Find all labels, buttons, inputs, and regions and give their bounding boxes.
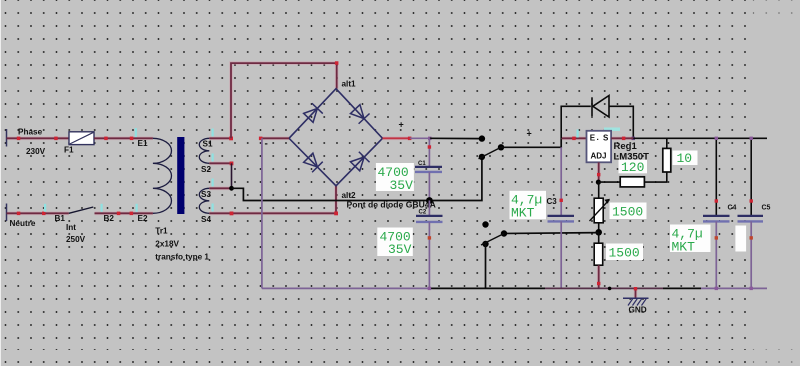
diode D4 bottom-right bbox=[350, 152, 370, 172]
transformer Tr1 primary winding bbox=[153, 138, 172, 213]
value label 120 bbox=[619, 160, 648, 175]
capacitor C4 top lead bbox=[715, 138, 717, 216]
svg-text:C3: C3 bbox=[547, 197, 558, 206]
svg-text:Neutre: Neutre bbox=[10, 219, 36, 228]
svg-text:+: + bbox=[527, 129, 532, 139]
wire bottom rail purple mid bbox=[545, 287, 663, 289]
value label 4700 35V upper bbox=[376, 163, 414, 193]
switch SW2 pole dot bbox=[501, 230, 507, 236]
probe mark above E1 bbox=[135, 128, 137, 137]
protection diode loop wires bbox=[561, 106, 633, 138]
svg-text:Int: Int bbox=[66, 223, 76, 232]
svg-text:C4: C4 bbox=[728, 205, 737, 212]
value label 1500 lower bbox=[606, 244, 643, 261]
probe mark above regulator bbox=[604, 128, 620, 132]
pin on C4 bottom lead bbox=[715, 236, 718, 239]
wire S4 to alt2 bbox=[209, 186, 336, 214]
op-amp U1 regulator LM350T box bbox=[587, 131, 612, 163]
svg-text:230V: 230V bbox=[26, 147, 46, 156]
wire SW2 throw C down to rail bbox=[485, 244, 487, 288]
pin on C1 lead bbox=[428, 145, 431, 148]
pin regulator E bbox=[572, 137, 576, 141]
potentiometer P1 1500 bbox=[590, 198, 610, 223]
wire R10 top to S rail bbox=[666, 138, 668, 148]
probe mark above B1 bbox=[44, 204, 46, 212]
junction S2/S3 centre tap bbox=[229, 186, 234, 191]
wire S rail to right bbox=[633, 137, 767, 139]
svg-text:F1: F1 bbox=[64, 146, 74, 155]
pin plus node bbox=[408, 137, 412, 141]
transformer Tr1 secondary winding S3-S4 bbox=[199, 188, 209, 213]
pin on C2 lead bbox=[428, 236, 431, 239]
wire S1 to alt1 bbox=[231, 63, 337, 138]
svg-text:E1: E1 bbox=[138, 139, 148, 148]
switch SW2 throw A dot bbox=[482, 221, 488, 227]
capacitor C1 top lead bbox=[428, 138, 430, 167]
svg-text:1500: 1500 bbox=[609, 246, 640, 261]
svg-text:Tr1: Tr1 bbox=[155, 227, 168, 236]
svg-text:S1: S1 bbox=[203, 140, 213, 149]
svg-text:2x18V: 2x18V bbox=[155, 240, 179, 249]
probe mark above S3 bbox=[212, 179, 214, 187]
switch SW1 throw A dot bbox=[479, 135, 485, 141]
svg-text:S3: S3 bbox=[201, 190, 211, 199]
wire ADJ node to R120 bbox=[598, 181, 620, 183]
wire bridge minus output bbox=[259, 137, 289, 139]
switch SW1 throw C dot bbox=[479, 154, 485, 160]
pin alt2 bbox=[334, 212, 338, 216]
svg-text:-: - bbox=[265, 139, 268, 150]
transformer Tr1 core bbox=[177, 137, 184, 214]
wire regulator S output bbox=[611, 137, 633, 139]
pin B1 bbox=[42, 212, 46, 216]
pin rail at C4 bbox=[715, 287, 718, 290]
wire Phase line bbox=[7, 137, 70, 139]
pin E2 bbox=[130, 212, 134, 216]
pin C4 top bbox=[715, 137, 718, 140]
junction ADJ node bbox=[596, 180, 601, 185]
junction pot/R1500 bbox=[595, 229, 602, 236]
capacitor C5 bottom lead bbox=[750, 221, 752, 288]
ground GND symbol bbox=[623, 287, 649, 306]
svg-text:1500: 1500 bbox=[612, 205, 643, 220]
wire bottom rail black right bbox=[663, 287, 701, 289]
pin at diode output junction bbox=[632, 137, 636, 141]
value label 10 bbox=[673, 151, 698, 167]
capacitor C4 bottom lead bbox=[715, 221, 717, 288]
svg-text:B1: B1 bbox=[55, 214, 66, 223]
junction capacitor midpoint bbox=[426, 197, 433, 204]
pin on Neutre wire bbox=[17, 212, 21, 216]
svg-text:35V: 35V bbox=[390, 178, 414, 193]
capacitor C2 bottom lead bbox=[428, 222, 430, 289]
wire bottom rail purple left bbox=[262, 287, 430, 289]
switch Int blade bbox=[69, 207, 94, 213]
wire bridge plus output red segment bbox=[383, 137, 410, 139]
empty value box C4 bbox=[700, 226, 711, 252]
wire S3 bbox=[209, 187, 231, 189]
fuse F1 bbox=[69, 132, 94, 145]
pin C5 top bbox=[750, 137, 753, 140]
svg-text:E2: E2 bbox=[138, 214, 148, 223]
pin on C4 lead bbox=[715, 199, 718, 202]
pin on C5 bottom lead bbox=[750, 236, 753, 239]
pin E1 bbox=[130, 137, 134, 141]
pin above rail on R1500 wire bbox=[597, 282, 600, 285]
probe mark near E bbox=[577, 130, 579, 138]
junction small on rail bbox=[608, 287, 612, 291]
probe mark above S4 bbox=[212, 204, 214, 212]
resistor R120 bbox=[620, 177, 644, 187]
wire S2 bbox=[209, 162, 231, 164]
wire junction to R1500 bbox=[598, 232, 600, 243]
switch SW2 throw C dot bbox=[482, 241, 488, 247]
wire ADJ down bbox=[598, 162, 600, 182]
capacitor C5 plates bbox=[738, 216, 764, 222]
empty value box C5 bbox=[735, 226, 746, 252]
wire SW1 pole to regulator bbox=[501, 138, 561, 147]
probe mark above S2 bbox=[212, 154, 214, 162]
svg-text:Reg1: Reg1 bbox=[614, 141, 638, 152]
pin S4 bbox=[230, 212, 234, 216]
wire F1 to E1 bbox=[94, 137, 153, 139]
wire minus rail down bbox=[261, 138, 263, 288]
bridge rectifier outline bbox=[289, 89, 383, 186]
capacitor C5 top lead bbox=[750, 138, 752, 216]
probe mark above E2 bbox=[136, 204, 138, 212]
value label 4,7u MKT left bbox=[510, 191, 547, 221]
wire S2 down to centre tap bbox=[231, 163, 233, 188]
node Neutre terminal tick bbox=[6, 204, 8, 222]
protection diode D5 bbox=[592, 96, 609, 118]
wire R120 to R10 bbox=[644, 172, 666, 182]
svg-text:250V: 250V bbox=[66, 235, 86, 244]
svg-text:+: + bbox=[399, 120, 404, 130]
wire halos (soft red glow) bbox=[7, 63, 636, 298]
svg-text:GND: GND bbox=[629, 306, 647, 315]
svg-text:C2: C2 bbox=[419, 210, 427, 216]
wire into regulator E bbox=[561, 137, 586, 139]
svg-text:.: . bbox=[597, 132, 599, 142]
resistor R10 bbox=[663, 148, 671, 172]
wire S1 bbox=[209, 137, 231, 139]
svg-text:C5: C5 bbox=[762, 205, 771, 212]
diode D3 bottom-left bbox=[303, 152, 323, 172]
capacitor C1 bottom lead bbox=[428, 172, 430, 201]
wire plus purple segment bbox=[410, 137, 430, 139]
capacitor C3 bottom lead bbox=[560, 221, 562, 288]
pin on C3 lead bbox=[560, 199, 563, 202]
pin minus node bbox=[259, 137, 263, 141]
wire centre tap to capacitor midpoint bbox=[232, 157, 482, 201]
capacitor C2 top lead bbox=[428, 201, 430, 216]
wire SW2 pole to pot junction bbox=[504, 232, 599, 235]
switch SW2 blade bbox=[481, 234, 504, 246]
value label 4,7u MKT right bbox=[670, 225, 711, 255]
capacitor C3 top lead bbox=[560, 147, 562, 216]
pin on Phase wire bbox=[17, 137, 21, 141]
capacitor C4 plates bbox=[703, 216, 730, 222]
value label 1500 pot bbox=[610, 203, 647, 220]
switch SW1 blade bbox=[479, 147, 502, 159]
resistor R1500 bbox=[594, 243, 603, 265]
svg-text:S: S bbox=[603, 134, 609, 143]
svg-text:35V: 35V bbox=[388, 242, 412, 257]
transformer Tr1 secondary winding S1-S2 bbox=[199, 138, 209, 163]
svg-text:S2: S2 bbox=[201, 165, 211, 174]
pin B2 bbox=[117, 212, 121, 216]
svg-text:B2: B2 bbox=[104, 214, 115, 223]
svg-text:Pont de diode GBU4A: Pont de diode GBU4A bbox=[347, 200, 436, 210]
capacitor C2 plates bbox=[416, 216, 443, 222]
svg-text:120: 120 bbox=[621, 160, 644, 175]
wire pot to junction bbox=[598, 223, 600, 233]
pin after F1 bbox=[104, 137, 108, 141]
svg-text:S4: S4 bbox=[201, 215, 211, 224]
wire ADJ node to potentiometer bbox=[598, 182, 600, 198]
wire B2 to E2 to transformer bbox=[95, 212, 153, 214]
pin cap C1 top tap bbox=[428, 137, 432, 141]
svg-text:alt1: alt1 bbox=[342, 80, 357, 89]
wire bottom rail purple right bbox=[701, 287, 767, 289]
pin rail at C2 bbox=[428, 287, 431, 290]
wire R1500 to ground rail bbox=[598, 265, 600, 288]
probe mark above S1 bbox=[212, 129, 214, 137]
capacitor C1 plates bbox=[415, 167, 442, 172]
svg-text:C1: C1 bbox=[418, 161, 426, 167]
value label 4700 35V lower bbox=[377, 228, 413, 257]
svg-text:Phase: Phase bbox=[18, 128, 43, 137]
pin ADJ bbox=[597, 173, 600, 176]
svg-text:E: E bbox=[590, 134, 596, 143]
wire Neutre line bbox=[7, 212, 69, 214]
switch SW1 pole dot bbox=[498, 144, 504, 150]
svg-text:10: 10 bbox=[677, 151, 693, 166]
svg-text:ADJ: ADJ bbox=[591, 152, 607, 161]
node Phase terminal tick bbox=[6, 129, 8, 147]
wire bottom rail black mid bbox=[429, 287, 545, 289]
pin rail at C5 bbox=[750, 287, 753, 290]
pin S1 bbox=[229, 137, 233, 141]
capacitor C3 plates bbox=[548, 216, 575, 222]
wire plus black segment to switch bbox=[430, 137, 482, 139]
pin regulator S bbox=[622, 137, 626, 141]
svg-text:MKT: MKT bbox=[511, 206, 535, 221]
pin on Phase wire 2 bbox=[54, 137, 58, 141]
pin S2 bbox=[230, 162, 234, 166]
pin at alt1 corner bbox=[335, 61, 339, 65]
diode D1 top-left (anode at minus) bbox=[303, 103, 323, 123]
svg-text:MKT: MKT bbox=[672, 240, 696, 255]
svg-text:transfo type 1: transfo type 1 bbox=[155, 253, 209, 262]
probe mark above B2 bbox=[101, 204, 103, 212]
diode D2 top-right bbox=[350, 104, 370, 124]
pin on C5 lead bbox=[750, 199, 753, 202]
